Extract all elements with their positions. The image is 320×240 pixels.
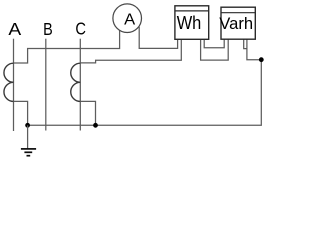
meter Varh box (221, 7, 255, 39)
ground symbol (21, 149, 36, 156)
wire Wh meter potential terminal to Varh meter potential terminal (204, 39, 224, 48)
junction dot at bus CT2 return (93, 123, 98, 128)
transformer CT2 winding on phase C (71, 63, 81, 101)
meter Wh lid line (175, 10, 209, 12)
wire phase C line (79, 39, 81, 131)
wire Varh meter right terminal to junction and bottom bus (28, 39, 262, 125)
wire CT1 secondary return to bus (14, 101, 28, 125)
wire phase B line (45, 39, 47, 131)
junction dot at Varh right lead (259, 57, 264, 62)
wire CT2 secondary top lead to Wh meter (80, 39, 181, 63)
wire ground stem (27, 125, 29, 149)
svg-text:B: B (43, 19, 53, 39)
junction dot at bus left (25, 123, 30, 128)
svg-text:A: A (124, 12, 136, 29)
meter Wh box (175, 6, 209, 40)
svg-text:A: A (8, 19, 21, 39)
ammeter U1 circle (113, 4, 142, 33)
wire phase A line (13, 39, 15, 131)
wire ammeter right lead to Wh meter left terminal 1 (139, 27, 177, 49)
meter Varh lid line (221, 12, 255, 14)
transformer CT1 winding on phase A (4, 63, 14, 101)
svg-text:Wh: Wh (177, 13, 202, 33)
wire Varh meter jumper terminal (244, 39, 247, 48)
wire Wh meter current terminal to Varh meter current terminal (201, 39, 229, 60)
svg-text:C: C (75, 19, 86, 39)
svg-text:Varh: Varh (219, 14, 253, 33)
wire CT2 secondary return to bus (80, 101, 95, 125)
wire CT1 secondary top lead to ammeter (14, 30, 120, 63)
